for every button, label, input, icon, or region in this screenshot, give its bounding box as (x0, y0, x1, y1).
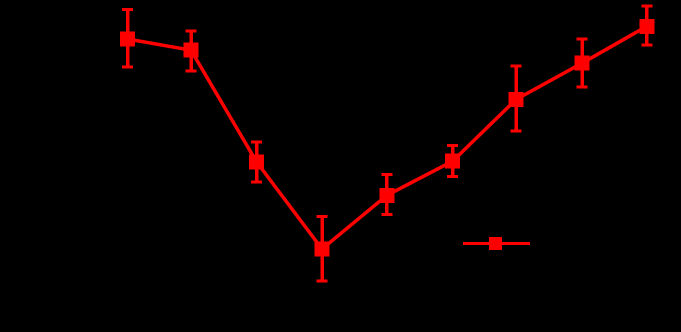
marker 2 (184, 43, 199, 58)
error bar 7 (511, 66, 522, 131)
error bar 9 (641, 6, 652, 45)
error bar 3 (251, 142, 262, 182)
marker 1 (120, 32, 135, 47)
data series polyline (128, 26, 647, 249)
marker 7 (509, 92, 524, 107)
error bar 1 (122, 10, 133, 67)
error bar 8 (577, 39, 588, 87)
error bar 2 (186, 31, 197, 71)
legend sample line (463, 242, 530, 245)
legend sample marker (489, 237, 502, 250)
error bar 4 (317, 217, 328, 282)
error bar 5 (381, 175, 392, 215)
marker 6 (445, 154, 460, 169)
marker 5 (379, 188, 394, 203)
marker 8 (575, 56, 590, 71)
marker 3 (249, 154, 264, 169)
marker 4 (315, 242, 330, 257)
error bar 6 (447, 146, 458, 177)
marker 9 (639, 19, 654, 34)
